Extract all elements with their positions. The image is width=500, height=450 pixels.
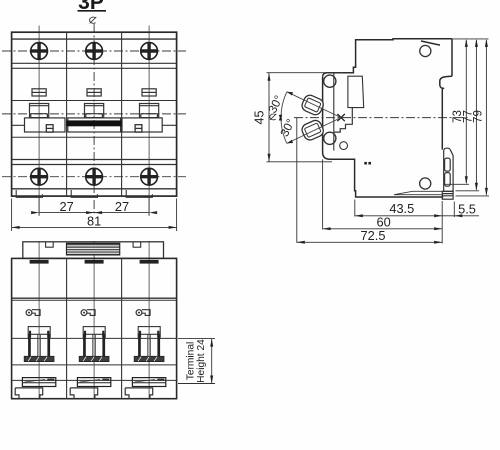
svg-text:72.5: 72.5 <box>361 228 386 243</box>
svg-text:79: 79 <box>472 110 485 123</box>
svg-text:5.5: 5.5 <box>458 202 476 217</box>
svg-text:43.5: 43.5 <box>389 201 414 216</box>
svg-text:27: 27 <box>59 199 73 214</box>
svg-text:81: 81 <box>87 214 101 229</box>
svg-text:3P: 3P <box>78 0 104 14</box>
svg-text:45: 45 <box>253 110 267 124</box>
svg-text:Height 24: Height 24 <box>196 339 207 383</box>
svg-text:Terminal: Terminal <box>186 342 197 381</box>
svg-text:27: 27 <box>115 199 129 214</box>
